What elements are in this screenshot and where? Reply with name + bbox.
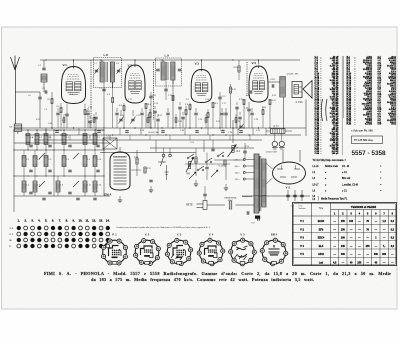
svg-text:L1-L4: L1-L4 (313, 166, 320, 168)
svg-text:M.: M. (10, 240, 13, 242)
svg-text:EL3: EL3 (319, 245, 324, 248)
svg-text:2.: 2. (24, 218, 27, 222)
svg-text:V 1: V 1 (300, 220, 304, 223)
svg-text:1.: 1. (18, 218, 21, 222)
svg-text:C.11: C.11 (153, 95, 157, 97)
svg-text:L.8: L.8 (104, 53, 109, 57)
svg-text:L.9: L.9 (165, 54, 170, 58)
svg-text:RR.: RR. (187, 174, 191, 176)
svg-text:R.8: R.8 (185, 104, 188, 106)
svg-text:C.22: C.22 (136, 115, 140, 117)
svg-text:FIMI S. A. - PHONOLA - Mo: FIMI S. A. - PHONOLA - Modd. 5557 e 5558… (44, 271, 391, 276)
svg-text:R.21: R.21 (147, 168, 151, 170)
svg-text:160 v: 160 v (235, 166, 240, 168)
svg-text:5.: 5. (45, 218, 48, 222)
svg-text:C.5: C.5 (70, 94, 73, 96)
svg-text:C.29: C.29 (140, 130, 144, 132)
svg-text:L.6: L.6 (60, 185, 63, 187)
svg-text:R.20: R.20 (134, 157, 138, 159)
svg-text:V.1.: V.1. (63, 63, 68, 67)
svg-text:TV. 6,3 V/3,2 Imp. con rever: TV. 6,3 V/3,2 Imp. con revers. = (313, 160, 347, 162)
svg-text:12.: 12. (92, 218, 96, 222)
svg-text:C.17: C.17 (222, 103, 226, 105)
svg-text:R.2: R.2 (57, 106, 60, 108)
svg-text:R.11: R.11 (158, 115, 162, 117)
svg-text:C2 - M: C2 - M (342, 166, 349, 168)
svg-text:C.16: C.16 (205, 99, 209, 101)
svg-text:EBC4: EBC4 (318, 237, 325, 240)
svg-text:10.: 10. (79, 218, 83, 222)
svg-text:R.16: R.16 (234, 67, 238, 69)
svg-text:C.21: C.21 (120, 115, 124, 117)
svg-text:C.31: C.31 (220, 130, 224, 132)
svg-text:R.10: R.10 (232, 89, 236, 91)
svg-text:V 4: V 4 (300, 245, 304, 248)
svg-text:C.20: C.20 (262, 107, 266, 109)
svg-text:C.18: C.18 (244, 108, 248, 110)
svg-text:25 Ω: 25 Ω (391, 124, 396, 126)
svg-text:L.5: L.5 (37, 159, 40, 161)
svg-text:V 5: V 5 (300, 253, 304, 256)
svg-text:L.1.: L.1. (66, 137, 70, 139)
svg-text:Bobine onde: Bobine onde (325, 166, 339, 168)
svg-text:C.12: C.12 (128, 99, 132, 101)
svg-text:C.1: C.1 (38, 65, 41, 67)
svg-text:Pf 1,25 MΩ imp.: Pf 1,25 MΩ imp. (354, 138, 374, 142)
svg-text:C.30: C.30 (180, 130, 184, 132)
svg-text:V. 3: V. 3 (177, 232, 182, 236)
svg-text:T.A.: T.A. (9, 126, 13, 129)
svg-text:0,1 MΩ: 0,1 MΩ (365, 124, 372, 126)
svg-text:EM 4: EM 4 (271, 232, 278, 236)
svg-text:C.32: C.32 (256, 130, 260, 132)
svg-text:L.3: L.3 (66, 159, 69, 161)
svg-text:R.14: R.14 (272, 100, 276, 102)
svg-text:R.15: R.15 (272, 95, 276, 97)
svg-text:L.2: L.2 (26, 159, 29, 161)
svg-text:R.5: R.5 (119, 105, 122, 107)
svg-text:V. 5: V. 5 (240, 232, 245, 236)
svg-text:TENSIONI ai PIEDINI: TENSIONI ai PIEDINI (351, 205, 377, 209)
svg-text:125 V.: 125 V. (228, 200, 234, 202)
svg-text:Valvola: Valvola (298, 208, 306, 210)
svg-text:V.4: V.4 (252, 61, 257, 65)
svg-text:4.: 4. (38, 218, 41, 222)
svg-text:da 183 a 575 m. Media frequen: da 183 a 575 m. Media frequenza 470 kc/s… (91, 277, 314, 282)
svg-text:L.oscillat. C2-M: L.oscillat. C2-M (342, 183, 358, 186)
svg-text:C.23: C.23 (178, 121, 182, 123)
svg-text:L.0: L.0 (28, 95, 31, 97)
svg-text:L.10: L.10 (97, 159, 101, 161)
svg-text:12.603 / 383.: 12.603 / 383. (266, 152, 278, 154)
svg-text:I contatti sono secondo l’: I contatti sono secondo l’aspetto alla m… (116, 226, 211, 229)
svg-text:3.: 3. (31, 218, 34, 222)
svg-text:C.31: C.31 (97, 185, 101, 187)
svg-text:R.12: R.12 (239, 99, 243, 101)
svg-text:5557 - 5358: 5557 - 5358 (352, 150, 387, 157)
svg-text:C.7: C.7 (94, 63, 97, 65)
svg-text:ECH4: ECH4 (318, 220, 325, 223)
svg-text:V 5.: V 5. (286, 186, 292, 190)
svg-text:A. P13.: A. P13. (296, 101, 304, 104)
svg-text:R.13: R.13 (216, 121, 220, 123)
svg-text:C.2: C.2 (42, 88, 45, 90)
svg-text:C.24: C.24 (198, 119, 202, 121)
svg-text:7.07: 7.07 (251, 223, 255, 225)
svg-text:C.13: C.13 (154, 103, 158, 105)
svg-text:» C1: » C1 (342, 190, 348, 192)
svg-text:7,-: 7,- (383, 246, 386, 248)
svg-text:C.7N: C.7N (228, 132, 233, 134)
svg-text:C.8: C.8 (116, 63, 119, 65)
svg-text:C.5: C.5 (48, 159, 51, 161)
svg-text:1 Pk: 1 Pk (190, 142, 194, 144)
svg-text:C.4: C.4 (48, 137, 51, 139)
svg-text:C.15: C.15 (222, 96, 226, 98)
svg-text:7.: 7. (59, 218, 62, 222)
svg-text:V. 2: V. 2 (145, 232, 150, 236)
svg-text:AZ41: AZ41 (318, 253, 325, 256)
svg-text:C.25: C.25 (236, 121, 240, 123)
svg-text:RETE: RETE (186, 204, 193, 207)
svg-text:R.1: R.1 (237, 150, 241, 153)
svg-text:EM 4.: EM 4. (104, 193, 112, 197)
svg-text:R.6: R.6 (148, 104, 151, 106)
svg-text:R.4: R.4 (107, 94, 110, 96)
svg-text:Media Frequenza Tipo F1: Media Frequenza Tipo F1 (321, 198, 348, 201)
svg-text:● Solo per Ph. 568: ● Solo per Ph. 568 (351, 130, 373, 133)
svg-text:R.38: R.38 (347, 124, 352, 126)
svg-text:100 pF: 100 pF (332, 153, 340, 155)
svg-text:12.613 / 300.: 12.613 / 300. (148, 132, 160, 134)
svg-text:13.: 13. (99, 218, 103, 222)
svg-text:C.14: C.14 (168, 95, 172, 97)
svg-text:P. 1: P. 1 (112, 232, 117, 236)
svg-text:8.: 8. (66, 218, 69, 222)
svg-text:C.26: C.26 (254, 119, 258, 121)
svg-text:R.17: R.17 (36, 119, 40, 121)
svg-text:C.54: C.54 (315, 152, 320, 155)
svg-text:L.5.: L.5. (26, 185, 30, 187)
svg-text:V 2: V 2 (300, 228, 304, 231)
svg-text:6.: 6. (52, 218, 55, 222)
svg-text:V. 4: V. 4 (209, 232, 214, 236)
svg-text:EF9: EF9 (319, 228, 324, 231)
svg-text:R.9: R.9 (215, 103, 218, 105)
svg-text:140 v: 140 v (235, 173, 240, 175)
svg-text:C.9: C.9 (99, 88, 102, 90)
svg-text:C.27: C.27 (58, 130, 62, 132)
svg-text:L.9: L.9 (87, 159, 90, 161)
svg-text:125 v: 125 v (235, 179, 240, 181)
svg-text:2.8 k: 2.8 k (245, 146, 249, 148)
svg-text:▲: ▲ (273, 246, 275, 249)
svg-text:V.2: V.2 (128, 64, 133, 68)
svg-text:L5-L7: L5-L7 (313, 184, 320, 186)
svg-text:L.1: L.1 (39, 137, 42, 139)
svg-text:C.19: C.19 (246, 95, 250, 97)
svg-text:R.1: R.1 (48, 99, 51, 101)
svg-text:11.: 11. (85, 218, 89, 222)
svg-text:C.3: C.3 (44, 109, 47, 111)
svg-text:9.: 9. (72, 218, 75, 222)
svg-text:L.11: L.11 (87, 185, 91, 187)
svg-text:14.: 14. (106, 218, 110, 222)
svg-text:R.7: R.7 (186, 99, 189, 101)
svg-text:V.3: V.3 (195, 62, 200, 66)
svg-text:12.649 / 387.: 12.649 / 387. (287, 74, 300, 76)
svg-text:L.7: L.7 (87, 137, 90, 139)
svg-text:Tipo: Tipo (319, 208, 324, 210)
svg-text:» C1: » C1 (342, 172, 348, 174)
svg-text:C.28: C.28 (100, 130, 104, 132)
svg-text:filtro onf: filtro onf (342, 177, 351, 180)
svg-text:Lad: Lad (319, 261, 324, 264)
svg-text:T.1: T.1 (97, 137, 100, 139)
svg-text:C.34: C.34 (48, 123, 52, 125)
svg-text:V 3: V 3 (300, 237, 304, 240)
svg-text:C.DPL: C.DPL (270, 79, 275, 81)
svg-text:C.10: C.10 (88, 107, 92, 109)
